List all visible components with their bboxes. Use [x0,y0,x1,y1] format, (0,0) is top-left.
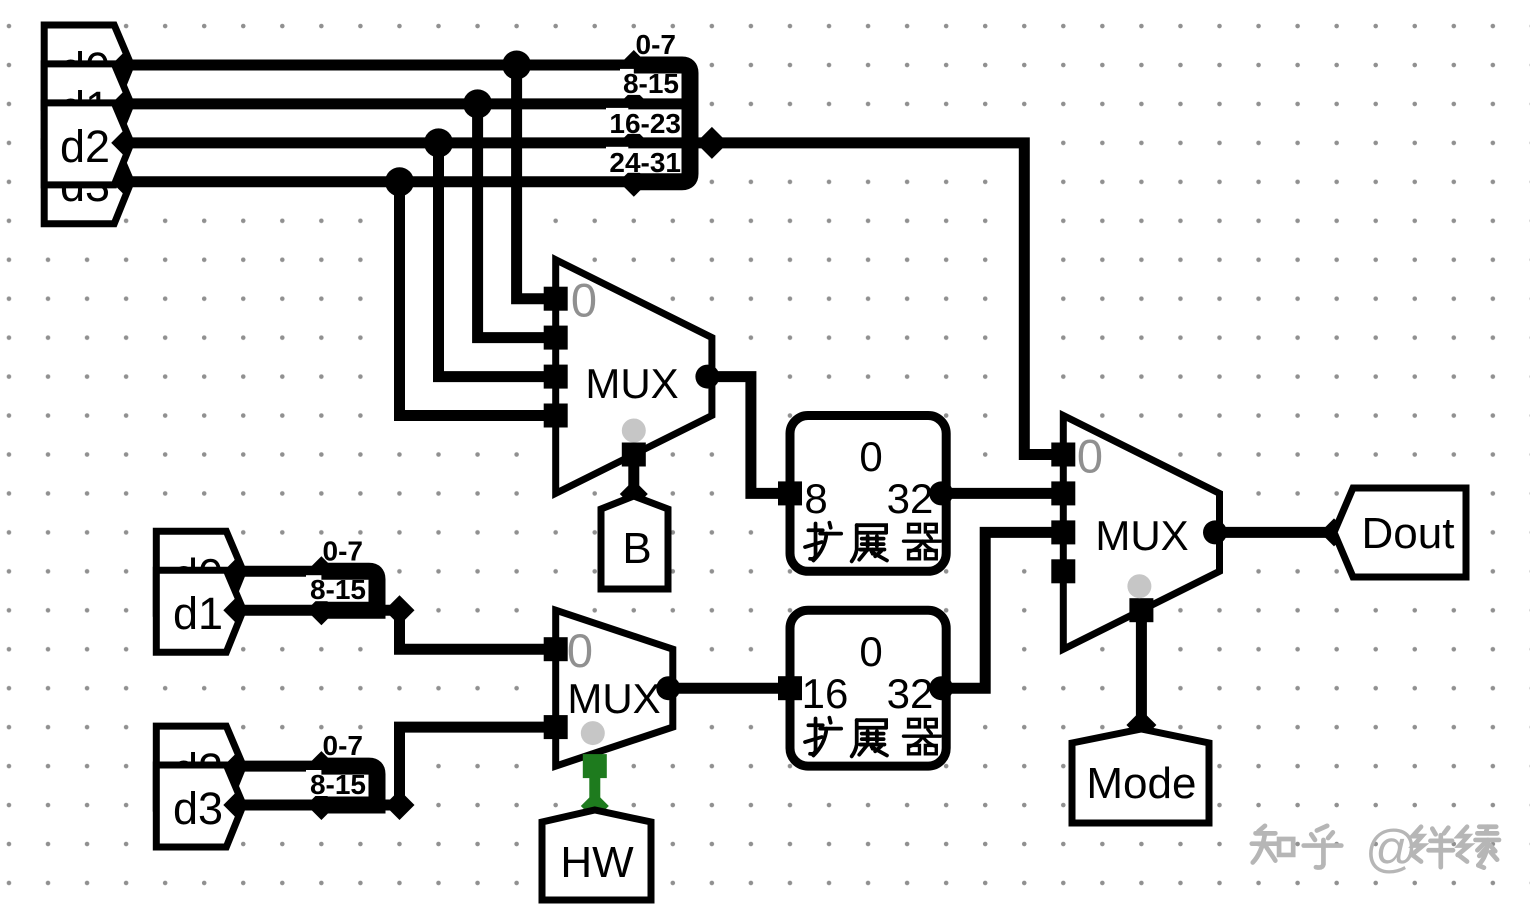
splitter SP2 leg pin 8-15 [306,595,336,625]
mux U1 body [556,260,712,494]
svg-text:d3: d3 [173,783,223,834]
input pin d1 [156,570,243,652]
watermark zhihu @banyuan [1252,826,1293,863]
svg-text:@: @ [1365,820,1418,878]
svg-text:0-7: 0-7 [323,730,363,761]
svg-text:32: 32 [887,475,934,522]
splitter SP1 combined end [696,127,728,159]
X1 output dot [929,481,953,505]
splitter SP1 spine [634,65,690,182]
wire SP3 to U3 input 1 [400,727,556,805]
wire d3 to SP3 [243,800,321,811]
wire SP2 to U3 input 0 [400,610,556,649]
wire branch to U1 input 1 [478,104,556,338]
splitter SP1 leg pin 0-7 [619,50,649,80]
svg-text:MUX: MUX [1095,512,1188,559]
wire X1 to U2 input 1 [946,488,1063,499]
U2 input stub 1 [1051,481,1075,505]
svg-text:0-7: 0-7 [636,29,676,60]
splitter SP2 spine [321,571,377,610]
U2 select stub [1129,598,1153,622]
HW wire end green [581,792,609,820]
svg-text:MUX: MUX [567,675,660,722]
input pin d0 halfword lane [156,531,243,613]
U2 input stub 2 [1051,520,1075,544]
junction on d3 lane [385,167,414,196]
U3 select dot [581,721,605,745]
mux U2 body [1063,416,1219,650]
splitter SP1 leg pin 8-15 [619,89,649,119]
junction on d0 lane [502,51,531,80]
splitter SP3 combined end [385,790,415,820]
input pin HW [542,810,651,900]
U1 input stub 1 [544,326,568,350]
U1 select dot [622,419,646,443]
wire X2 to U2 input 2 [946,532,1063,688]
splitter SP3 spine [321,766,377,805]
svg-text:B: B [622,524,651,573]
wire d2 byte lane [131,137,634,148]
U1 input stub 0 [544,287,568,311]
svg-text:16-23: 16-23 [609,108,681,139]
svg-text:0: 0 [859,628,882,675]
svg-text:d2: d2 [60,121,110,172]
svg-text:HW: HW [560,838,634,887]
mux U3 body [556,610,673,766]
extender X2 body [790,610,946,766]
junction on d1 lane [463,89,492,118]
label SP1 8-15 [620,69,682,95]
svg-text:0: 0 [1077,430,1103,483]
wire d1 to SP2 [243,605,321,616]
splitter SP3 leg pin 8-15 [306,790,336,820]
label SP1 24-31 [606,147,683,173]
input pin d3 (top group, partly hidden) [44,142,131,224]
svg-text:Mode: Mode [1086,759,1196,808]
U1 select stub [622,443,646,467]
U1 input stub 2 [544,365,568,389]
wire d2 to SP3 [243,761,321,772]
svg-text:16: 16 [802,670,849,717]
extender X1 body [790,416,946,572]
input pin d2 halfword lane [156,726,243,808]
svg-text:24-31: 24-31 [609,147,681,178]
U1 output dot [695,365,719,389]
svg-text:0: 0 [859,433,882,480]
svg-text:d1: d1 [173,588,223,639]
input pin d1 (top group, mostly hidden) [44,64,131,146]
wire branch to U1 input 3 [400,182,556,416]
input pin Mode [1072,729,1209,823]
wire U1 to X1 [712,377,790,494]
U2 input stub 3 [1051,559,1075,583]
U1 input stub 3 [544,404,568,428]
splitter SP2 combined stub [377,605,400,616]
wire branch to U1 input 2 [439,143,556,377]
U2 select dot [1127,574,1151,598]
splitter SP1 leg pin 16-23 [619,128,649,158]
wire U3 to X2 [673,683,790,694]
U3 output dot [656,676,680,700]
wire U1 select to B [628,455,639,493]
svg-text:Dout: Dout [1362,509,1455,558]
wire SP1 to U2 input 0 [712,143,1063,455]
junction on d2 lane [424,128,453,157]
input pin d2 (top group) [44,103,131,185]
X2 output dot [929,676,953,700]
wire U2 select to Mode [1136,610,1147,723]
svg-text:0-7: 0-7 [323,535,363,566]
X1 label kuozhanqi [805,523,841,561]
wire U3 select to HW green [589,768,600,802]
label SP1 16-23 [606,108,683,134]
U3 input stub 1 [544,715,568,739]
wire branch to U1 input 0 [517,65,556,299]
splitter SP1 combined stub [690,137,712,148]
X1 input stub [778,481,802,505]
splitter SP1 leg pin 24-31 [619,167,649,197]
Mode wire end [1126,710,1156,740]
input pin d3 [156,765,243,847]
wire d0 byte lane [131,60,634,71]
svg-text:8: 8 [804,475,827,522]
label SP3 8-15 [306,770,369,796]
U3 select stub green [583,754,607,778]
input pin d0 (top group, mostly hidden) [44,25,131,107]
U2 output dot [1203,520,1227,544]
svg-text:0: 0 [571,274,597,327]
input pin B [601,496,668,589]
wire d0 to SP2 [243,566,321,577]
X2 label kuozhanqi [805,718,841,756]
wire d1 byte lane [131,98,634,109]
wire d3 byte lane [131,176,634,187]
X2 input stub [778,676,802,700]
B wire end [620,480,648,508]
Dout wire end [1320,518,1348,546]
output pin Dout [1334,488,1466,577]
U3 input stub 0 [544,637,568,661]
svg-text:32: 32 [887,670,934,717]
splitter SP2 combined end [385,595,415,625]
wire U2 to Dout [1220,527,1335,538]
splitter SP3 combined stub [377,800,400,811]
splitter SP2 leg pin 0-7 [306,556,336,586]
label SP2 8-15 [306,575,369,601]
U2 input stub 0 [1051,443,1075,467]
svg-text:0: 0 [567,624,593,677]
splitter SP3 leg pin 0-7 [306,751,336,781]
svg-text:MUX: MUX [585,360,678,407]
